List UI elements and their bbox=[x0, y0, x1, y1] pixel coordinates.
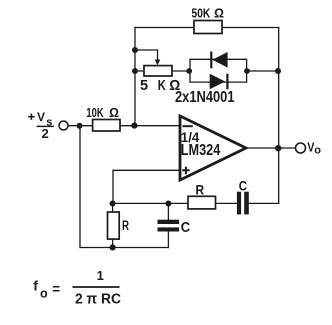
svg-text:LM324: LM324 bbox=[181, 142, 221, 159]
wire left bias vertical bbox=[79, 126, 81, 248]
input terminal +Vs/2 circle bbox=[59, 121, 68, 130]
diode D1 (top, pointing left) bbox=[210, 52, 227, 69]
junction node: pot left terminal bbox=[132, 68, 138, 74]
svg-text:2 π RC: 2 π RC bbox=[75, 292, 121, 308]
svg-text:Ω: Ω bbox=[214, 6, 224, 21]
junction node: shunt C top bbox=[165, 201, 171, 207]
svg-text:10K: 10K bbox=[86, 105, 104, 120]
label +Vs/2 bbox=[28, 110, 54, 141]
wire op-amp output bbox=[246, 147, 296, 149]
op-amp plus pin mark bbox=[182, 167, 190, 174]
svg-text:C: C bbox=[239, 178, 247, 194]
wire mid RC feedback line bbox=[113, 202, 188, 204]
wire pot right stub bbox=[172, 70, 190, 72]
op-amp minus pin mark bbox=[183, 125, 193, 127]
diode D2 (bottom, pointing right) bbox=[210, 74, 229, 90]
svg-text:C: C bbox=[181, 220, 191, 236]
svg-text:5: 5 bbox=[140, 78, 148, 94]
svg-text:2: 2 bbox=[42, 126, 49, 141]
wire left feedback vertical bbox=[134, 28, 136, 126]
svg-text:R: R bbox=[196, 182, 205, 198]
junction node: inverting input / 10K / feedback bbox=[131, 123, 137, 129]
wire main input line bbox=[68, 125, 180, 127]
junction node: non-inverting / shunt R bbox=[110, 201, 116, 207]
svg-text:Ω: Ω bbox=[109, 105, 119, 120]
wire diode loop frame bbox=[190, 59, 247, 82]
op-amp U1 (1/4 LM324) bbox=[180, 116, 246, 180]
resistor R (shunt to bias rail) bbox=[108, 212, 120, 239]
wire diode loop to right rail bbox=[247, 70, 279, 72]
wire series C to right rail bbox=[249, 202, 279, 204]
wire pot wiper arm bbox=[135, 50, 158, 60]
wire shunt C bottom stub bbox=[167, 232, 169, 248]
resistor 50K (feedback) bbox=[194, 21, 222, 34]
svg-text:o: o bbox=[314, 145, 321, 157]
wire shunt R bottom stub bbox=[112, 239, 114, 247]
junction node: input terminal / bias branch bbox=[77, 123, 83, 129]
junction node: wiper tap on left vertical bbox=[132, 47, 138, 53]
svg-text:o: o bbox=[40, 286, 48, 300]
svg-text:2x1N4001: 2x1N4001 bbox=[175, 89, 235, 106]
wire non-inverting input run bbox=[113, 170, 180, 203]
junction node: diode loop left bbox=[186, 68, 192, 74]
svg-text:1: 1 bbox=[97, 268, 104, 283]
wire bottom bias rail bbox=[80, 247, 168, 249]
potentiometer 5K body bbox=[144, 66, 172, 76]
svg-text:V: V bbox=[37, 110, 45, 124]
capacitor C (shunt to bias rail) bbox=[158, 220, 180, 232]
svg-text:K: K bbox=[158, 78, 166, 94]
junction node: shunt R bottom / bias rail bbox=[110, 244, 116, 250]
svg-text:f: f bbox=[33, 278, 38, 294]
svg-text:R: R bbox=[122, 218, 129, 233]
formula fo = 1/(2 pi RC) bbox=[33, 268, 121, 308]
wire top feedback rail bbox=[135, 27, 279, 29]
wire shunt C top stub bbox=[167, 203, 169, 219]
potentiometer wiper arrowhead bbox=[155, 60, 161, 66]
wire series R to series C bbox=[216, 202, 237, 204]
resistor R (series, feedback RC) bbox=[188, 196, 216, 209]
wire shunt R top stub bbox=[112, 203, 114, 212]
output terminal Vo circle bbox=[296, 143, 306, 153]
capacitor C (series, feedback RC) bbox=[237, 192, 249, 215]
wire pot left stub bbox=[135, 70, 144, 72]
resistor 10K (input) bbox=[93, 120, 120, 132]
junction node: right rail / diode branch bbox=[275, 68, 281, 74]
junction node: output / right rail bbox=[275, 145, 281, 151]
junction node: diode loop right bbox=[244, 68, 250, 74]
svg-text:=: = bbox=[52, 280, 60, 296]
wire right vertical rail bbox=[278, 28, 280, 204]
svg-text:50K: 50K bbox=[192, 6, 211, 21]
